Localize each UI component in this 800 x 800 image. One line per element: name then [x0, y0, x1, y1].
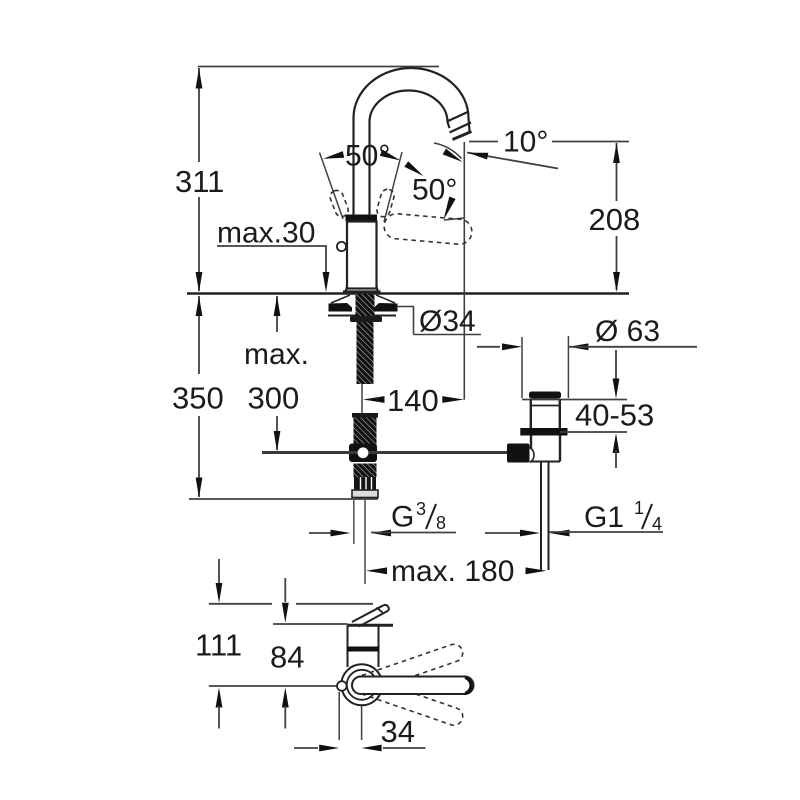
svg-text:8: 8 — [436, 513, 446, 533]
hose top cap — [352, 413, 378, 418]
hose nut stripe 3 — [371, 477, 373, 490]
plan lever solid — [352, 677, 474, 695]
second 50deg arc — [434, 143, 462, 159]
body flare right — [377, 286, 381, 293]
10 degree slanted line — [467, 153, 558, 169]
svg-text:G: G — [391, 501, 414, 534]
dia63 right shaft — [568, 346, 697, 348]
svg-text:350: 350 — [172, 381, 224, 416]
G38 right arrow — [371, 530, 391, 537]
supply pipe left line — [353, 498, 355, 544]
popup rod pipe — [262, 451, 507, 454]
drain upper body right wall — [559, 400, 561, 429]
dimension 34 extension line right — [361, 706, 363, 740]
hose nut — [354, 477, 376, 490]
max.30 leader vertical — [325, 246, 327, 272]
drain plug cap — [529, 392, 561, 399]
washer hatch line right — [376, 295, 395, 303]
40-53 bottom reference line — [560, 431, 627, 433]
svg-text:84: 84 — [270, 640, 304, 675]
plan pivot small circle — [337, 681, 347, 691]
50deg arc left arrow — [323, 151, 344, 159]
mounting nut — [350, 317, 382, 323]
dimension 311 vertical line upper segment — [198, 68, 200, 162]
left handle axis line — [320, 153, 344, 220]
shank center line — [361, 384, 363, 413]
svg-text:140: 140 — [387, 383, 439, 418]
dia63 extension line left — [521, 337, 523, 398]
dimension 111 arrow up — [216, 688, 223, 708]
dimension 311 arrow down — [196, 272, 203, 292]
10 degree horizontal line left segment — [469, 141, 498, 143]
mounting deck line — [187, 292, 629, 294]
body cap — [346, 215, 378, 222]
svg-text:3: 3 — [416, 499, 426, 519]
drain lower body left wall — [530, 436, 532, 462]
hose end collar — [352, 490, 378, 498]
svg-text:Ø34: Ø34 — [419, 305, 476, 338]
hose lower section — [354, 464, 377, 478]
dimension 34 arrow right-pointing — [319, 745, 339, 752]
drain upper body neck line — [531, 405, 560, 407]
dimension 84 top shaft — [284, 578, 286, 602]
dimension 311 vertical line lower segment — [198, 197, 200, 291]
washer wing left — [329, 303, 353, 312]
G38 left shaft — [309, 532, 332, 534]
plan top reference line right — [296, 603, 373, 605]
dimension max300 vertical line upper segment — [276, 296, 278, 332]
arrow on 10 degree slanted line — [468, 153, 488, 160]
dia63 extension line right — [567, 336, 569, 398]
spout inner profile — [370, 91, 450, 215]
plan lever end cap thick — [465, 678, 471, 694]
handle horizontal dashed — [383, 213, 473, 246]
drain leader vertical — [413, 307, 415, 335]
dimension max300 arrow up — [274, 296, 281, 316]
washer bottom line — [328, 315, 396, 317]
G114 left shaft — [485, 532, 521, 534]
side knob circle — [337, 242, 346, 251]
plan spout lower edge — [359, 611, 389, 627]
dimension 34 arrow left-pointing — [362, 745, 382, 752]
drain tailpipe left line — [540, 462, 542, 571]
drain flange — [520, 428, 567, 436]
svg-text:40-53: 40-53 — [575, 398, 654, 433]
popup valve circle — [358, 447, 369, 458]
max180 left arrow — [366, 567, 387, 574]
dimension 40-53 shaft upper — [615, 350, 617, 383]
plan handle axis line — [209, 685, 337, 687]
max180 right arrow — [526, 567, 547, 574]
aerator tick 1 — [447, 112, 469, 122]
hose nut stripe 1 — [360, 477, 362, 490]
dia63 arrow left — [502, 343, 522, 350]
dimension 140 arrow right — [442, 396, 464, 403]
plan spout inner line — [377, 608, 383, 613]
plan hub outer circle — [341, 664, 382, 705]
svg-text:G1: G1 — [584, 501, 624, 534]
dimension 311 arrow up — [196, 69, 203, 89]
dia63 arrow right — [568, 343, 588, 350]
dia34 underline — [414, 334, 482, 336]
svg-text:1: 1 — [634, 498, 644, 518]
drain inlet block — [507, 444, 530, 463]
handle tilted right dashed — [375, 188, 395, 218]
dia63 left shaft — [477, 346, 500, 348]
supply pipe right line — [364, 498, 366, 584]
plan spout tip cap — [384, 605, 389, 611]
svg-text:34: 34 — [381, 714, 415, 749]
dimension 350 vertical line lower segment — [198, 416, 200, 497]
dimension 40-53 arrow up — [613, 433, 620, 453]
40-53 top reference line — [522, 399, 627, 401]
dimension 208 vertical line upper segment — [616, 143, 618, 201]
G114 left arrow — [520, 530, 540, 537]
svg-text:111: 111 — [195, 628, 242, 663]
svg-text:max.30: max.30 — [217, 217, 315, 250]
drain upper body left wall — [530, 400, 532, 429]
threaded shank upper — [356, 294, 375, 316]
hose upper section — [354, 418, 377, 447]
50deg arc right arrow — [380, 150, 401, 161]
dimension 40-53 shaft lower — [615, 450, 617, 468]
10 degree horizontal line right segment — [552, 141, 629, 143]
plan lever dashed up — [353, 642, 465, 695]
dimension 34 extension line left — [338, 692, 340, 740]
plan top reference line left — [209, 603, 272, 605]
dimension max300 arrow down — [274, 431, 281, 451]
svg-text:208: 208 — [589, 202, 641, 237]
svg-text:max.: max. — [244, 338, 309, 371]
popup valve body — [349, 444, 377, 463]
G114 shelf line — [550, 531, 664, 533]
top reference line at spout apex — [198, 66, 439, 68]
svg-text:300: 300 — [248, 381, 300, 416]
drain leader line from washer — [397, 306, 414, 308]
extra arc arrow right — [404, 161, 423, 176]
dimension 208 arrow down — [613, 272, 620, 292]
aerator outlet face — [453, 132, 472, 140]
washer wing right — [374, 303, 398, 312]
body outline — [347, 222, 377, 289]
drain tailpipe right line — [548, 462, 550, 571]
second 50deg arc arrow — [443, 149, 463, 162]
drain lower body right wall — [559, 436, 561, 462]
dimension max300 vertical line lower segment — [276, 416, 278, 450]
threaded shank lower — [357, 322, 374, 384]
washer hatch line left — [331, 295, 350, 303]
dimension 350 arrow up — [196, 296, 203, 316]
second 50deg lower arrow — [444, 197, 456, 221]
plan body left wall — [347, 625, 349, 667]
svg-text:Ø 63: Ø 63 — [595, 315, 660, 348]
dimension 140 arrow left — [363, 396, 385, 403]
spout outer profile — [354, 68, 470, 215]
dimension 208 vertical line lower segment — [616, 236, 618, 290]
right handle axis line — [384, 152, 402, 222]
svg-text:4: 4 — [652, 514, 662, 534]
plan body dark band — [347, 647, 380, 652]
dimension 111 arrow down — [216, 583, 223, 603]
max.30 arrow down to deck — [323, 272, 330, 292]
svg-text:10°: 10° — [503, 126, 548, 159]
dimension 34 right shaft — [383, 747, 426, 749]
dimension 111 bottom shaft — [218, 706, 220, 729]
dimension 40-53 arrow down — [613, 379, 620, 399]
dimension 34 left shaft — [294, 747, 318, 749]
plan body right wall — [378, 625, 380, 667]
hose nut stripe 2 — [365, 477, 367, 490]
plan lever dashed down — [353, 675, 465, 728]
plan hub inner circle — [347, 670, 377, 700]
G38 left arrow — [331, 530, 351, 537]
handle horizontal axis stub — [444, 218, 464, 220]
aerator tick 2 — [450, 123, 472, 133]
body base thick segment — [343, 290, 381, 293]
dimension 111 top shaft — [218, 559, 220, 584]
dimension 84 arrow down — [282, 603, 289, 623]
G114 right arrow — [550, 530, 570, 537]
svg-text:311: 311 — [175, 164, 224, 199]
body flare left — [343, 286, 347, 293]
plan spout upper edge — [352, 605, 384, 622]
bottom reference line of 350 dimension — [189, 498, 378, 500]
spout tip vertical reference line — [463, 142, 465, 400]
G38 shelf line — [371, 532, 456, 534]
svg-text:max. 180: max. 180 — [391, 555, 514, 588]
dimension 208 arrow up — [613, 143, 620, 163]
dimension 350 arrow down — [196, 478, 203, 498]
drain lower body bottom — [531, 461, 560, 463]
dimension 84 bottom shaft — [284, 706, 286, 729]
dimension 350 vertical line upper segment — [198, 296, 200, 374]
dimension 84 arrow up — [282, 688, 289, 708]
plan mid reference line — [273, 623, 348, 625]
max.30 leader underline — [217, 245, 327, 247]
handle tilted left dashed — [328, 189, 350, 219]
plan body top thick edge — [348, 624, 394, 627]
drain ball circle — [530, 448, 535, 463]
